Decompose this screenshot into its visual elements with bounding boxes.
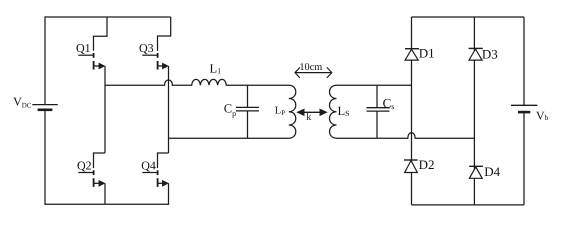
- svg-text:Cp: Cp: [224, 102, 236, 119]
- svg-text:D2: D2: [419, 157, 435, 172]
- svg-text:L1: L1: [210, 62, 222, 76]
- svg-text:Q1: Q1: [76, 41, 91, 55]
- svg-text:D4: D4: [484, 164, 500, 179]
- svg-text:Cs: Cs: [383, 95, 395, 111]
- svg-text:D3: D3: [482, 47, 498, 62]
- svg-text:D1: D1: [419, 46, 435, 61]
- svg-text:Vb: Vb: [536, 109, 549, 123]
- svg-text:k: k: [306, 112, 311, 123]
- svg-text:10cm: 10cm: [299, 62, 322, 73]
- svg-text:Q3: Q3: [139, 41, 154, 55]
- svg-text:Q4: Q4: [141, 158, 156, 172]
- svg-text:LP: LP: [275, 106, 285, 118]
- svg-text:VDC: VDC: [13, 95, 32, 110]
- svg-text:LS: LS: [338, 104, 350, 118]
- svg-text:Q2: Q2: [77, 158, 92, 172]
